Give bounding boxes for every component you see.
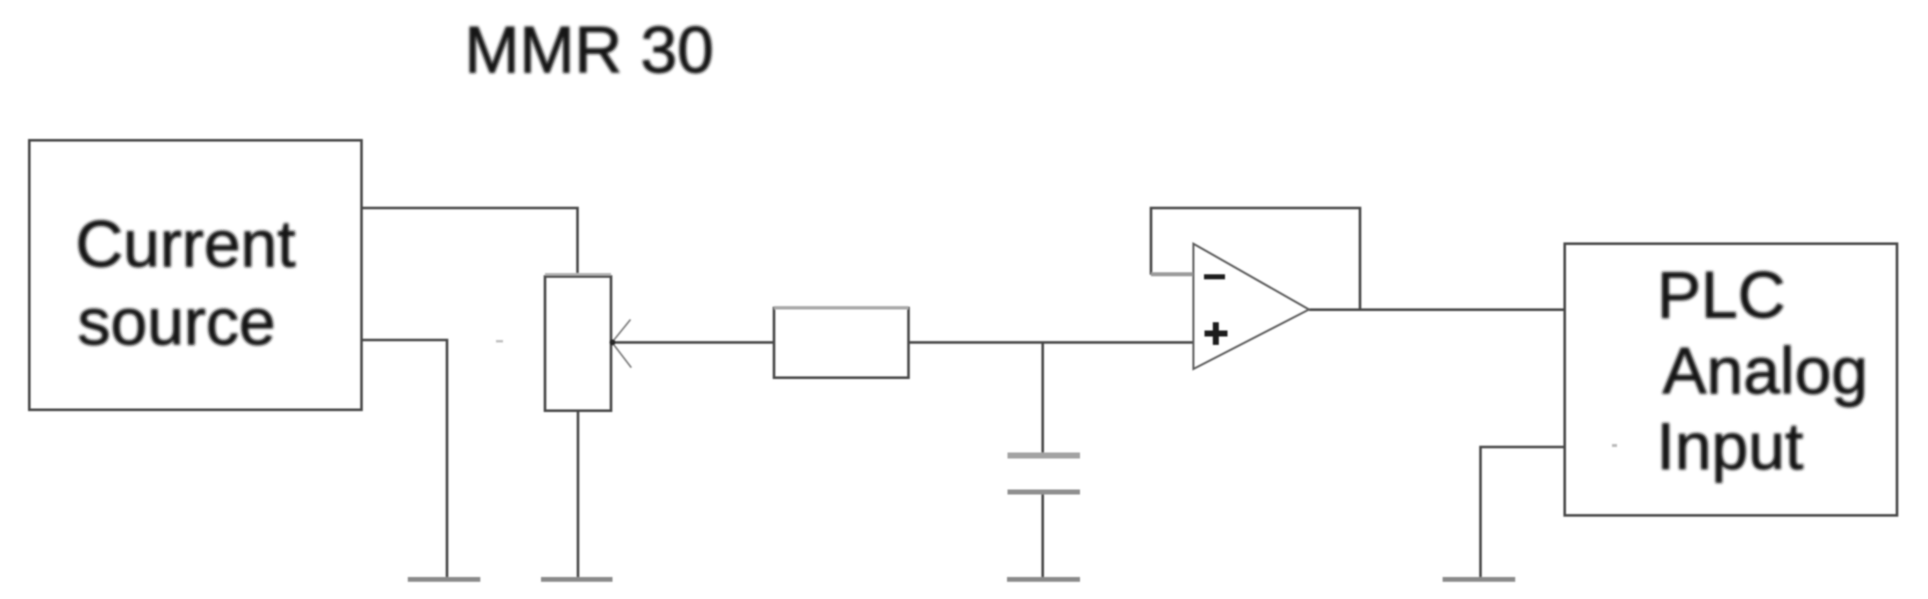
svg-text:MMR 30: MMR 30 (465, 12, 714, 86)
svg-text:PLC: PLC (1657, 258, 1785, 332)
svg-text:Current: Current (76, 207, 296, 281)
svg-text:Input: Input (1657, 409, 1804, 483)
svg-text:Analog: Analog (1663, 334, 1869, 408)
svg-text:source: source (78, 285, 276, 359)
